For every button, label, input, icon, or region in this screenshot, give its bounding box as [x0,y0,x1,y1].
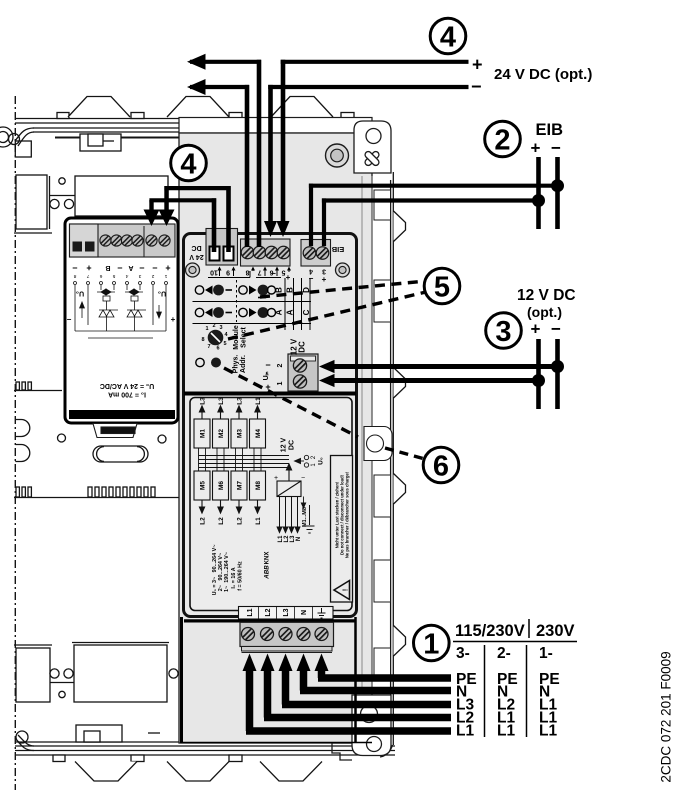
terminal row [70,224,176,257]
relay M5 [194,471,210,500]
svg-text:L1: L1 [255,397,262,405]
right wall clip triangle 4 [394,626,406,657]
svg-text:3: 3 [138,273,141,279]
svg-text:I₀ = 700 mA: I₀ = 700 mA [108,391,146,398]
ratings text block (rotated) [212,545,244,596]
svg-text:12 V: 12 V [281,437,288,452]
black strip [69,410,175,419]
svg-text:L3: L3 [237,397,244,405]
svg-text:12 V DC: 12 V DC [517,287,576,304]
right wall [380,172,393,757]
svg-text:I₀ = 16 A: I₀ = 16 A [231,567,237,588]
top panel holes [59,178,65,184]
mains terminal block L1 L2 L3 N PE [240,622,334,652]
svg-text:24 V DC (opt.): 24 V DC (opt.) [494,66,592,83]
bottom mounting rail [15,742,395,762]
svg-text:A: A [128,264,133,271]
bottom rail left curl [15,731,34,751]
feed arrows above M1-M4 [199,406,260,419]
leader line callout 5b [228,292,426,339]
wire 24VDC- from supply (pin 6) [264,85,469,237]
callout 6 [423,447,459,483]
EIB bus bar plus [532,157,545,229]
callout 4 (top) [430,18,466,54]
top rail clip bracket [80,134,121,151]
fixing clip with screw [364,427,392,461]
svg-text:Select: Select [241,327,248,348]
svg-text:3: 3 [219,325,222,331]
top knockout box right [75,176,168,216]
svg-text:230V: 230V [536,622,575,640]
face divider line [184,392,356,396]
svg-text:ABB: ABB [264,565,271,580]
svg-text:7: 7 [257,269,261,276]
svg-text:−: − [117,263,122,273]
svg-text:−: − [301,475,305,482]
svg-text:f = 50/60 Hz: f = 50/60 Hz [238,561,244,591]
fold line (dash-dot) [14,96,16,790]
svg-text:Ne pas brancher / débrancher s: Ne pas brancher / débrancher sous charge… [345,472,350,558]
svg-text:−: − [471,77,482,97]
relay M8 [250,471,266,500]
svg-text:L2: L2 [237,517,244,525]
svg-text:DC: DC [289,440,296,450]
svg-text:N: N [301,610,308,615]
svg-text:1: 1 [205,326,208,332]
svg-text:+: + [165,263,170,273]
zener symbols [99,310,114,317]
svg-text:1-: 1- [539,645,553,662]
svg-text:M6: M6 [218,481,225,490]
svg-text:6: 6 [99,273,102,279]
svg-text:+: + [86,263,91,273]
EIB bus bar minus [551,157,564,229]
svg-text:L1: L1 [247,608,254,616]
svg-text:+: + [274,475,278,482]
svg-text:5: 5 [223,341,226,347]
relay M2 [213,419,229,448]
warning box [331,456,353,603]
power supply symbol [277,464,301,497]
top rail bump 1 [68,97,130,118]
enclosure background [0,96,406,790]
svg-text:L1: L1 [539,723,557,740]
svg-text:115/230V: 115/230V [455,622,525,640]
svg-text:DC: DC [191,244,201,251]
LED field frame [193,278,312,330]
svg-text:7: 7 [86,273,89,279]
svg-text:+: + [171,315,176,324]
mains wire L3 [279,654,452,705]
supply feed lines L1 L2 L3 N [277,497,300,533]
top rail bump 3 [271,97,333,118]
callout 1 [414,625,450,661]
right wall clip triangle 2 [394,368,406,399]
svg-text:N: N [296,537,302,541]
12V bus bar minus [551,339,564,409]
svg-text:A: A [286,309,295,315]
terminal block pins 5-8 [241,239,291,266]
pin number labels (upside down) [210,268,327,285]
wire 24VDC+ to external (upper left arrow) [187,54,261,247]
relay M7 [231,471,247,500]
relay M3 [231,419,247,448]
bottom panel holes [50,682,74,684]
callout 5 [424,268,460,304]
labels 12V DC / Uin (rotated) [263,338,307,392]
mains wire N [297,654,452,691]
wire EIB minus (bus to pin 4) [309,184,558,246]
svg-text:M5: M5 [200,481,207,490]
svg-text:C: C [302,309,311,315]
svg-text:B: B [105,264,110,271]
svg-text:2: 2 [277,363,284,367]
svg-text:M8: M8 [255,481,262,490]
housing body [179,133,372,743]
svg-text:10: 10 [210,269,218,276]
svg-text:L3: L3 [283,608,290,616]
svg-text:2: 2 [151,273,154,279]
svg-text:L2: L2 [200,517,207,525]
housing top plate [179,118,372,134]
label EIB + - [531,121,564,158]
suppressor diode pair left [101,289,111,295]
face screw right [336,263,350,277]
terminal labels (upside down) [72,263,170,273]
left wall comb upper [14,382,62,391]
wire 12VDC lower (bus to pin 1) [319,374,539,387]
svg-text:+: + [322,275,327,284]
svg-text:+: + [531,320,541,339]
svg-text:L1: L1 [456,723,474,740]
wire 24VDC- to external (lower left arrow) [187,79,249,247]
vertical drops [74,285,76,300]
svg-text:3: 3 [495,316,511,348]
LED row A [195,307,311,318]
callout 4 (left) [171,145,207,181]
svg-text:−: − [551,139,561,158]
wire 12VDC upper (bus to pin 2) [319,360,558,373]
callout 2 [485,121,521,157]
svg-text:−: − [309,274,314,283]
body [65,218,178,423]
Un arrows [80,302,85,308]
schematic label panel [190,398,352,611]
callout 3 [486,313,522,349]
bottom rail clip bracket [76,725,160,742]
svg-text:8: 8 [201,337,204,343]
svg-text:4: 4 [180,149,196,181]
bottom rail bump 1 [75,762,137,782]
mains wire L1 [243,654,452,732]
svg-text:DC: DC [298,341,307,353]
feed arrows below M5-M8 [199,500,260,513]
svg-text:EIB: EIB [536,121,564,139]
svg-text:3: 3 [322,268,326,275]
power supply module U1 (left device) [65,218,178,438]
bottom knockout box right [72,643,169,703]
pin bracket lines and arrows [208,268,289,278]
svg-text:L3: L3 [200,397,207,405]
pin numbers (upside down) [73,273,167,279]
svg-text:6: 6 [216,346,219,352]
svg-text:−: − [139,263,144,273]
svg-text:M1: M1 [200,429,207,438]
svg-text:1: 1 [164,273,167,279]
terminal block 24VDC-opt (pins 9,10) [206,229,238,266]
relay M4 [250,419,266,448]
top rail bump 2 [167,97,229,118]
svg-text:6: 6 [433,451,449,483]
wire link upper (supply pin7 to 24VDC terminal) [159,186,231,252]
svg-text:M7: M7 [237,481,244,490]
svg-text:Addr.: Addr. [240,355,247,373]
bottom rail bump 2 [167,762,229,782]
label M1...M8 [301,497,305,509]
svg-text:2-: 2- [497,645,511,662]
svg-text:2CDC 072 201 F0009: 2CDC 072 201 F0009 [659,651,674,782]
bottom rail bump 3 [260,762,322,782]
svg-text:L2: L2 [218,517,225,525]
svg-text:A: A [275,309,284,315]
svg-text:B: B [286,287,295,293]
svg-text:L1: L1 [255,517,262,525]
svg-text:U₀: U₀ [158,290,166,297]
svg-text:9: 9 [226,269,230,276]
bus wiring between relays [199,448,290,471]
svg-text:Phys.: Phys. [233,355,240,374]
terminal block 12VDC out (pins 1,2) [288,354,318,391]
svg-text:−: − [67,315,72,324]
svg-text:U₀ = 24 V AC/DC: U₀ = 24 V AC/DC [100,382,154,389]
svg-text:−: − [265,360,270,370]
svg-text:4: 4 [125,273,128,279]
mains wire L2 [261,654,452,718]
svg-text:7: 7 [207,344,210,350]
svg-text:!: ! [343,589,350,591]
internal circuit print [74,282,168,339]
wire 24VDC+ from supply (pin 5) [277,60,469,237]
svg-text:+: + [472,55,483,75]
svg-text:4: 4 [440,22,456,54]
svg-text:B: B [275,287,284,293]
svg-text:2: 2 [212,323,215,329]
printed load schematic on module label [180,397,372,743]
svg-text:M3: M3 [237,429,244,438]
svg-text:−: − [72,263,77,273]
lower housing edges [180,617,372,743]
svg-text:+: + [531,139,541,158]
svg-text:M2: M2 [218,429,225,438]
mains wire PE [315,654,452,679]
terminal block EIB (pins 3,4) [301,240,331,267]
din rail clip [93,424,137,438]
face panel [184,234,357,617]
face bottom divider [184,619,356,622]
label 12 V DC (opt.) + - [517,287,576,339]
column dividers [484,645,486,737]
leader line callout 5a [260,281,426,297]
bottom terminal label strip [239,607,334,620]
svg-text:1: 1 [277,381,284,385]
face screw left [186,263,200,277]
svg-text:+: + [286,273,291,282]
relay M1 [194,419,210,448]
right wall clip triangle 1 [394,211,406,242]
Uin pins [295,455,309,467]
din clamp slot [93,446,148,462]
mid shelf comb row [14,487,180,498]
phase assignment table [453,619,577,740]
svg-text:U₀: U₀ [76,290,84,297]
wire EIB plus (bus to pin 3) [322,198,539,246]
svg-text:24 V: 24 V [189,253,204,260]
physical address button + LED [196,355,247,374]
svg-text:3-: 3- [456,645,470,662]
svg-text:8: 8 [73,273,76,279]
left wall cable clamp ovals [15,420,30,437]
pin dots row [74,282,77,285]
ground symbol [305,505,315,533]
top rail left curl [9,128,35,157]
svg-text:8: 8 [245,269,249,276]
wire link lower (supply pin8 to 24VDC terminal) [144,198,217,252]
svg-text:Uᵢₙ: Uᵢₙ [263,371,270,380]
svg-text:5: 5 [434,272,450,304]
face screw top [326,144,349,167]
svg-text:L3: L3 [218,397,225,405]
bus lines [75,330,166,332]
svg-text:M1...M8: M1...M8 [302,507,308,527]
top mounting rail [15,113,355,138]
LED row B [195,285,311,298]
svg-text:(opt.): (opt.) [527,304,562,320]
top mounting flange [354,121,391,173]
12V bus bar plus [532,339,545,409]
rotary switch Module Select [201,323,247,352]
svg-text:1: 1 [423,629,439,661]
relay M6 [213,471,229,500]
label +/- 24 V DC (opt.) [471,55,592,97]
right clip strip [362,176,391,694]
svg-text:KNX: KNX [265,552,271,565]
svg-text:2: 2 [494,125,510,157]
svg-text:EIB: EIB [331,245,344,254]
top knockout box left [14,175,52,233]
svg-text:−: − [152,263,157,273]
suppressor diode pair right [129,289,139,295]
svg-text:M4: M4 [255,429,262,438]
right wall clip triangle 3 [394,474,406,505]
actuator module U2 (central device) [179,118,392,761]
svg-text:L1: L1 [497,723,515,740]
bottom mounting flange [332,695,391,760]
svg-text:1~ 190...264 V~: 1~ 190...264 V~ [224,552,230,592]
svg-text:U₀: U₀ [318,457,325,465]
bottom knockout box left [14,645,52,702]
leader line callout 6 [224,368,425,459]
svg-text:L2: L2 [265,608,272,616]
enclosure corner screw boss [0,127,13,147]
svg-text:5: 5 [112,273,115,279]
svg-text:−: − [551,320,561,339]
